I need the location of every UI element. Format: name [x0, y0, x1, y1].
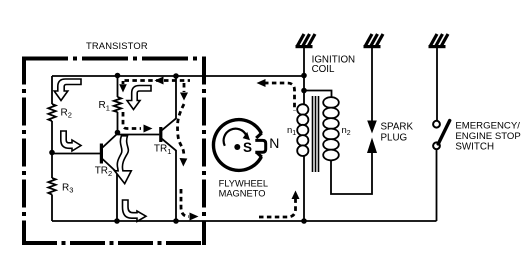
- svg-text:SPARK: SPARK: [381, 122, 414, 133]
- svg-text:N: N: [269, 135, 279, 151]
- svg-text:TRANSISTOR: TRANSISTOR: [86, 40, 148, 51]
- svg-text:SWITCH: SWITCH: [455, 142, 494, 153]
- svg-text:FLYWHEEL: FLYWHEEL: [219, 179, 268, 189]
- svg-text:COIL: COIL: [312, 64, 335, 75]
- svg-text:MAGNETO: MAGNETO: [219, 189, 266, 199]
- svg-text:S: S: [243, 140, 252, 155]
- svg-text:PLUG: PLUG: [381, 133, 408, 144]
- svg-text:EMERGENCY/: EMERGENCY/: [455, 120, 520, 131]
- svg-text:ENGINE STOP: ENGINE STOP: [455, 131, 520, 142]
